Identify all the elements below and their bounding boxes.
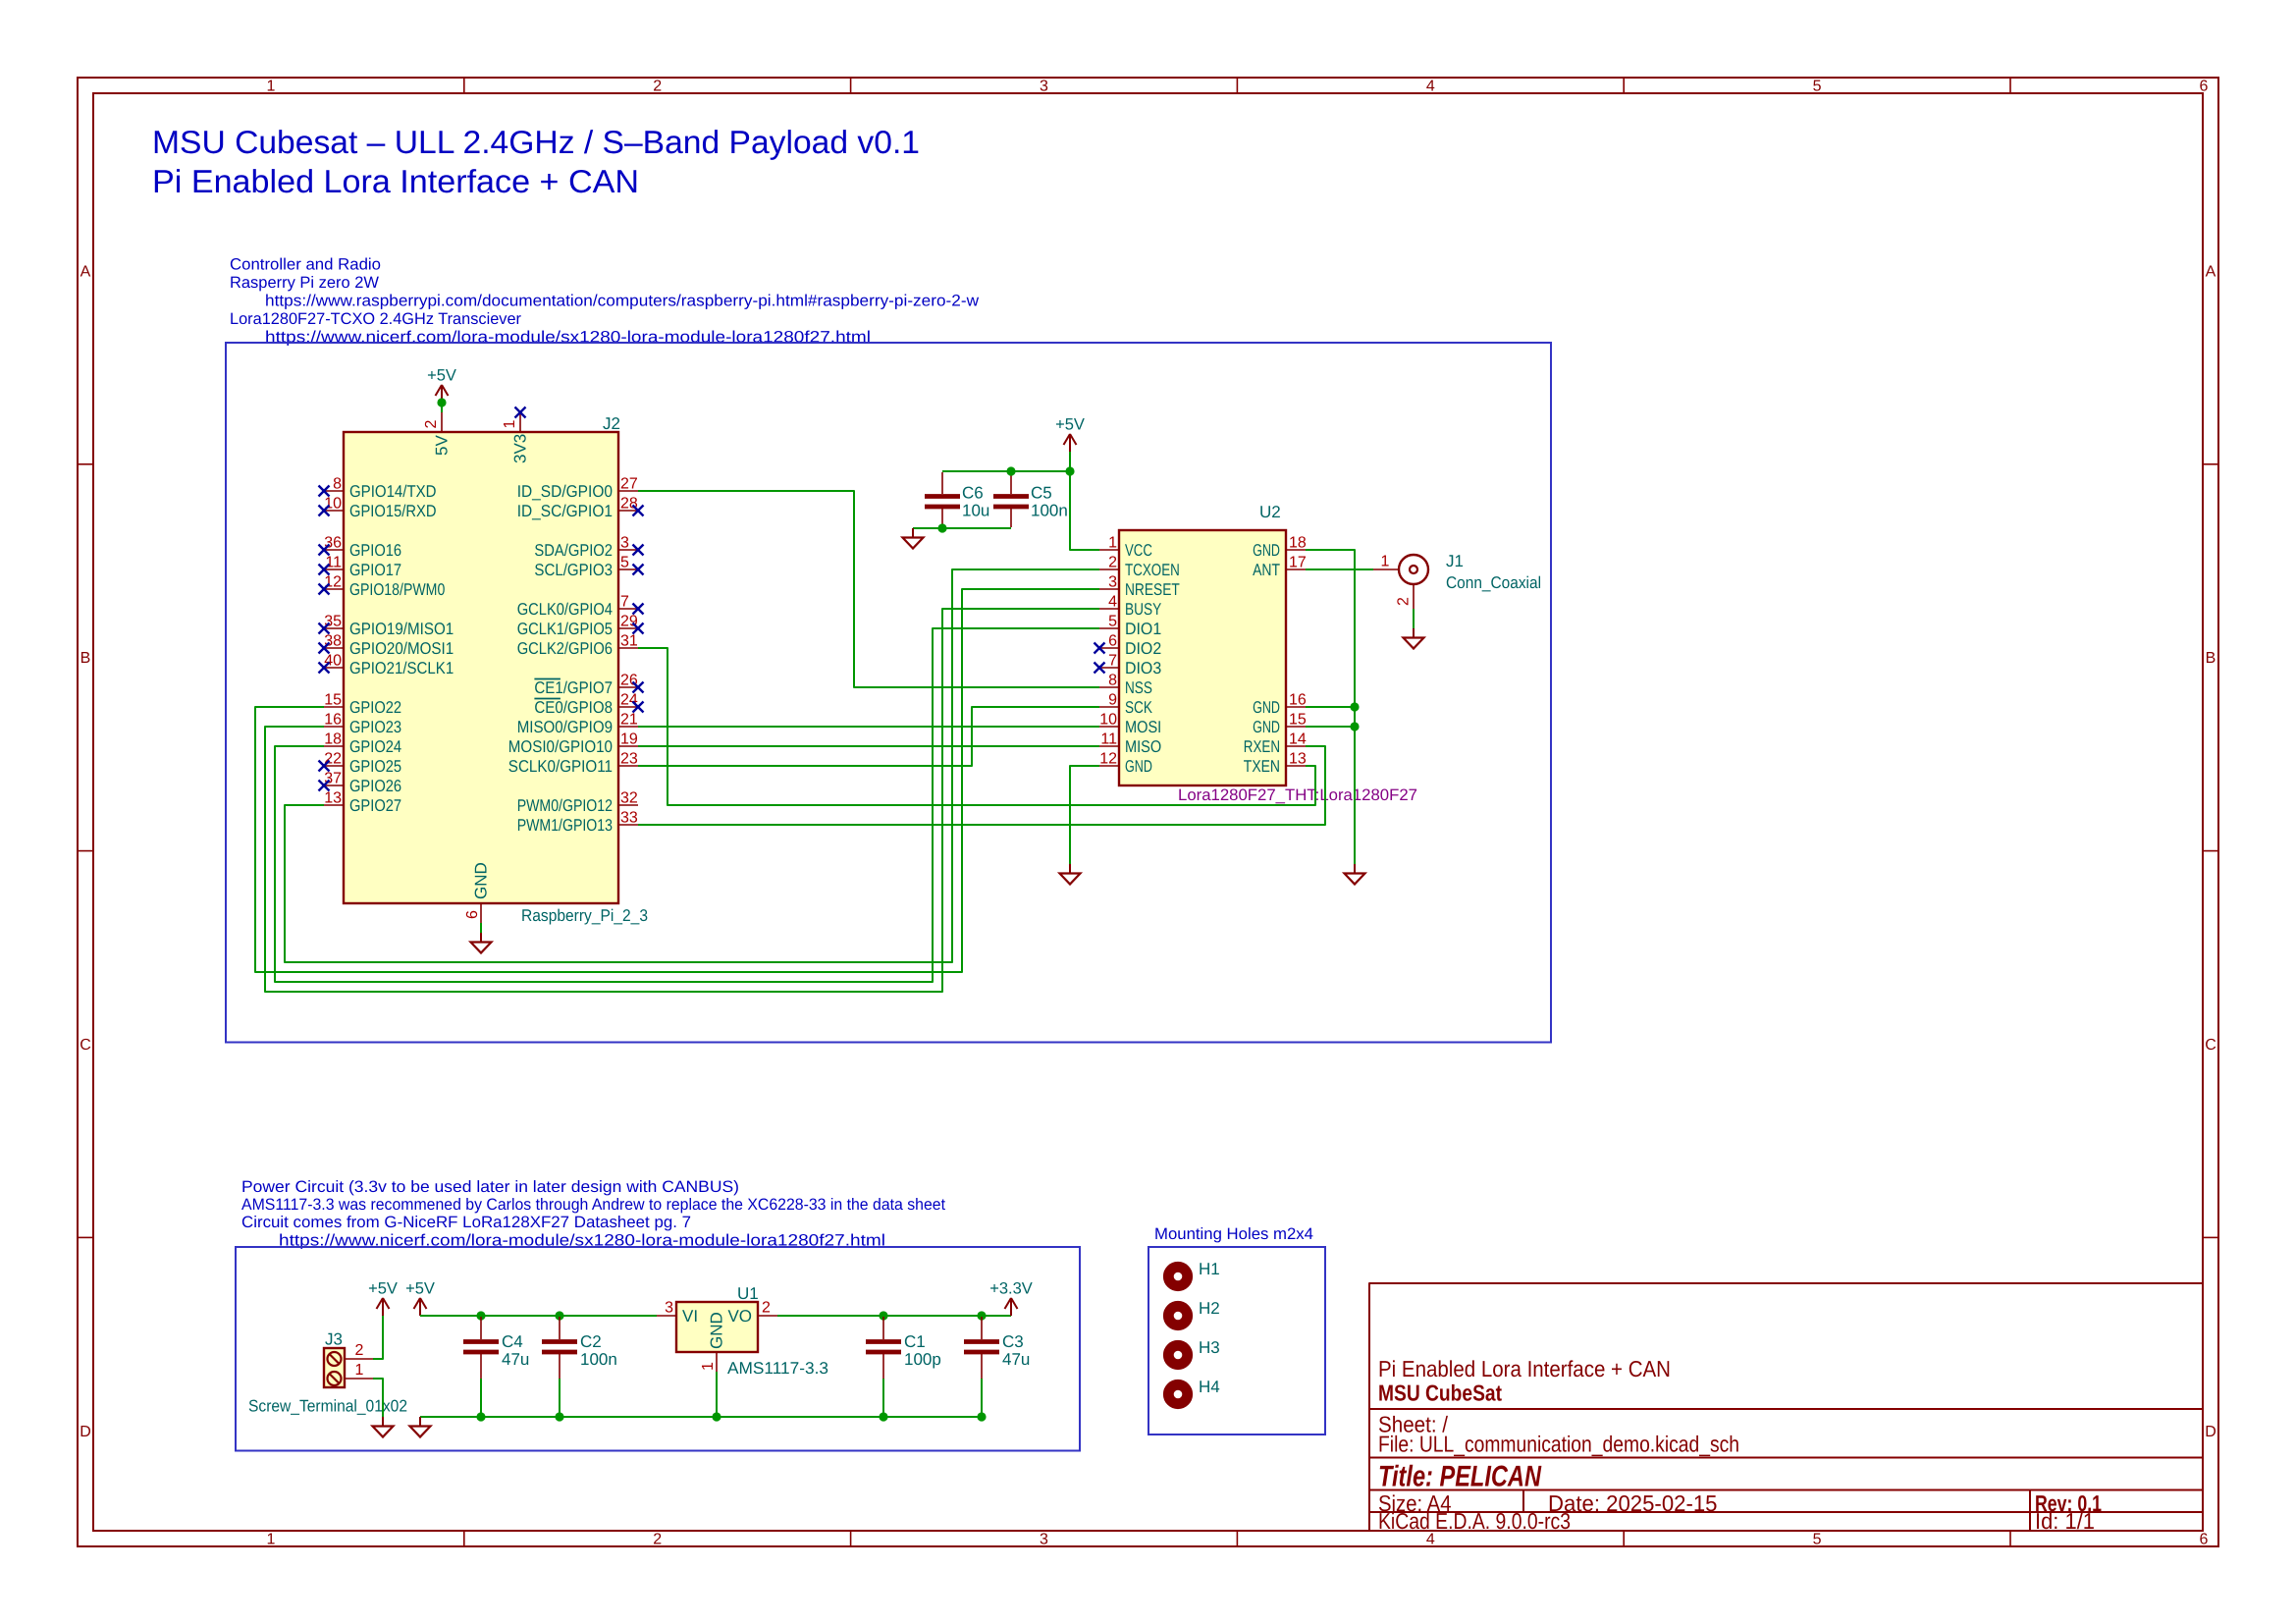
J2 pin 23 SCLK0/GPIO11 [508,751,638,776]
svg-text:KiCad E.D.A. 9.0.0-rc3: KiCad E.D.A. 9.0.0-rc3 [1378,1508,1571,1534]
note: controller and radio description [230,256,979,347]
junction C1 top [879,1311,887,1320]
wire U2 ANT to J1 [1306,568,1373,570]
svg-text:3: 3 [620,535,629,552]
svg-text:GCLK1/GPIO5: GCLK1/GPIO5 [517,620,613,638]
J2 pin 10 GPIO15/RXD [319,496,437,520]
svg-text:4: 4 [1426,1532,1435,1548]
svg-text:2: 2 [355,1342,364,1359]
svg-text:VCC: VCC [1125,541,1152,560]
svg-text:18: 18 [324,731,342,748]
svg-text:2: 2 [423,420,440,429]
svg-text:36: 36 [324,535,342,552]
J2 pin 3 SDA/GPIO2 [534,535,643,560]
svg-text:DIO1: DIO1 [1125,620,1161,638]
svg-text:Id: 1/1: Id: 1/1 [2035,1508,2095,1534]
svg-text:3: 3 [1040,79,1048,95]
svg-text:C6: C6 [962,484,984,503]
C1 labels [904,1332,941,1369]
svg-text:GPIO19/MISO1: GPIO19/MISO1 [349,620,454,638]
wire MISO0 to MOSI [638,726,1099,728]
svg-text:Pi Enabled Lora Interface + CA: Pi Enabled Lora Interface + CAN [1378,1356,1671,1381]
svg-text:+5V: +5V [405,1280,435,1298]
U1 pin 1 GND [700,1312,726,1372]
U1 reference label [737,1284,759,1303]
junction C1 bottom [879,1412,887,1421]
J2 pin 8 GPIO14/TXD [319,476,437,501]
svg-text:33: 33 [620,810,638,827]
U2 pin 1 VCC [1099,535,1152,560]
svg-text:5: 5 [1813,79,1822,95]
svg-text:Conn_Coaxial: Conn_Coaxial [1446,573,1541,592]
svg-text:B: B [2206,650,2216,667]
svg-text:Rasperry Pi zero 2W: Rasperry Pi zero 2W [230,274,379,292]
svg-text:GPIO24: GPIO24 [349,737,401,756]
svg-text:GPIO20/MOSI1: GPIO20/MOSI1 [349,639,454,658]
J2 pin 29 GCLK1/GPIO5 [517,614,644,638]
J2 pin 26 CE1/GPIO7 [534,673,643,697]
svg-text:B: B [80,650,91,667]
J2 pin 31 GCLK2/GPIO6 [517,633,638,658]
svg-text:DIO2: DIO2 [1125,639,1161,658]
power flag +5V above J2 [427,367,456,404]
svg-text:100n: 100n [580,1350,617,1369]
ground at J1 pin 2 [1404,609,1424,649]
svg-text:21: 21 [620,712,638,729]
J2 pin 15 GPIO22 [324,692,401,717]
power flag +3.3V [989,1280,1033,1317]
J2 pin 18 GPIO24 [324,731,401,756]
svg-text:10u: 10u [962,502,989,520]
svg-text:BUSY: BUSY [1125,600,1161,619]
J3 pin 1 [345,1362,373,1379]
U2 pin 2 TCXOEN [1099,555,1180,579]
junction at +5V J2 pin 2 [437,398,446,406]
J2 pin 5 SCL/GPIO3 [534,555,643,579]
wire PWM1 to RXEN [638,746,1325,825]
J2 pin 24 CE0/GPIO8 [534,692,643,717]
svg-text:GND: GND [472,862,491,899]
wire J3 pin2 to +5V [373,1316,383,1359]
svg-text:7: 7 [1108,653,1117,670]
J2 pin 27 ID_SD/GPIO0 [517,476,638,501]
junction U1 GND bottom [712,1412,721,1421]
U2 pin 4 BUSY [1099,594,1161,619]
capacitor C5 [993,472,1029,527]
junction C3 top [977,1311,986,1320]
junction C4 top [476,1311,485,1320]
svg-text:10: 10 [324,496,342,513]
svg-text:U2: U2 [1259,503,1281,521]
wire GPIO22 to NRESET [255,589,1099,972]
svg-text:C1: C1 [904,1332,926,1351]
capacitor C4 [463,1317,499,1417]
note: power circuit description [241,1178,945,1250]
svg-text:MSU Cubesat – ULL 2.4GHz / S–B: MSU Cubesat – ULL 2.4GHz / S–Band Payloa… [152,124,920,160]
svg-text:A: A [80,263,91,280]
svg-text:1: 1 [266,79,275,95]
J2 pin 21 MISO0/GPIO9 [517,712,638,736]
J2 pin 1 3V3 (top, no-connect) [502,407,530,464]
svg-text:8: 8 [1108,673,1117,689]
wire J3 pin1 to ground [373,1379,394,1437]
title block frame [1369,1283,2203,1531]
svg-text:6: 6 [2199,1532,2208,1548]
svg-text:PWM0/GPIO12: PWM0/GPIO12 [517,796,613,815]
U1 pin 3 VI [657,1300,698,1326]
junction C2 top [555,1311,563,1320]
svg-text:J3: J3 [325,1330,343,1349]
svg-text:ANT: ANT [1253,561,1280,579]
ground at caps [903,528,924,549]
svg-text:1: 1 [502,420,518,429]
U2 reference label [1259,503,1281,521]
svg-text:1: 1 [1108,535,1117,552]
svg-text:GPIO16: GPIO16 [349,541,401,560]
svg-text:Mounting Holes m2x4: Mounting Holes m2x4 [1154,1225,1313,1243]
svg-text:+5V: +5V [427,367,456,385]
mounting hole H4 [1168,1378,1219,1404]
svg-text:3: 3 [1108,574,1117,591]
J2 pin 35 GPIO19/MISO1 [319,614,454,638]
svg-text:VO: VO [727,1307,752,1326]
U2 pin 17 ANT [1253,555,1307,579]
svg-text:GND: GND [708,1312,726,1349]
svg-text:DIO3: DIO3 [1125,659,1161,677]
svg-text:10: 10 [1099,712,1117,729]
J2 value label Raspberry_Pi_2_3 [521,906,648,925]
svg-text:5V: 5V [433,435,452,456]
svg-text:C3: C3 [1002,1332,1024,1351]
svg-text:4: 4 [1108,594,1117,611]
U2 pin 3 NRESET [1099,574,1180,599]
svg-text:+3.3V: +3.3V [989,1280,1033,1298]
svg-text:+5V: +5V [1055,416,1085,434]
svg-text:3: 3 [1040,1532,1048,1548]
svg-text:J1: J1 [1446,552,1464,570]
svg-text:MISO: MISO [1125,737,1161,756]
U1 pin 2 VO [727,1300,777,1326]
svg-text:47u: 47u [502,1350,529,1369]
C5 labels [1031,484,1068,520]
svg-text:TXEN: TXEN [1244,757,1280,776]
J2 pin 2 5V (top) [423,412,452,456]
connector J1 Conn_Coaxial [1373,554,1428,610]
svg-text:27: 27 [620,476,638,493]
svg-text:C: C [2205,1037,2216,1054]
wire SCLK0 to SCK [638,707,1099,766]
U2 pin 8 NSS [1099,673,1152,697]
svg-text:SCL/GPIO3: SCL/GPIO3 [534,561,613,579]
ground at rail left end [410,1417,431,1437]
svg-text:CE0/GPIO8: CE0/GPIO8 [534,698,613,717]
power flag +5V above U2 [1055,416,1085,453]
J2 pin 32 PWM0/GPIO12 [517,790,638,815]
power circuit group box [236,1247,1080,1451]
svg-text:SDA/GPIO2: SDA/GPIO2 [534,541,613,560]
svg-text:GND: GND [1125,757,1152,776]
svg-text:1: 1 [700,1362,717,1371]
U2 pin 6 DIO2 [1095,633,1162,658]
svg-text:13: 13 [324,790,342,807]
svg-text:3V3: 3V3 [511,434,530,463]
U2 pin 13 TXEN [1244,751,1307,776]
svg-text:11: 11 [1100,731,1117,748]
svg-text:C2: C2 [580,1332,602,1351]
U1 value label AMS1117-3.3 [727,1359,828,1378]
svg-text:23: 23 [620,751,638,768]
J2 pin 40 GPIO21/SCLK1 [319,653,454,677]
mounting hole H3 [1168,1338,1219,1365]
svg-text:5: 5 [1813,1532,1822,1548]
regulator U1 AMS1117-3.3 body [676,1302,758,1352]
svg-text:GND: GND [1253,541,1280,560]
svg-text:GPIO22: GPIO22 [349,698,401,717]
svg-text:Title: PELICAN: Title: PELICAN [1378,1461,1542,1493]
svg-text:Pi Enabled Lora Interface + CA: Pi Enabled Lora Interface + CAN [152,163,639,199]
J2 pin 38 GPIO20/MOSI1 [319,633,454,658]
svg-text:NSS: NSS [1125,678,1152,697]
svg-text:CE1/GPIO7: CE1/GPIO7 [534,678,613,697]
svg-text:Power Circuit (3.3v to be used: Power Circuit (3.3v to be used later in … [241,1178,739,1196]
controller and radio group box [226,343,1551,1043]
U2 pin 12 GND [1099,751,1152,776]
svg-text:ID_SD/GPIO0: ID_SD/GPIO0 [517,482,613,501]
svg-text:GPIO25: GPIO25 [349,757,401,776]
junction C4 bottom [476,1412,485,1421]
svg-text:GPIO14/TXD: GPIO14/TXD [349,482,437,501]
U2 pin 10 MOSI [1099,712,1161,736]
svg-text:PWM1/GPIO13: PWM1/GPIO13 [517,816,613,835]
svg-text:26: 26 [620,673,638,689]
U2 footprint label Lora1280F27_THT:Lora1280F27 [1178,786,1417,804]
svg-text:Lora1280F27_THT:Lora1280F27: Lora1280F27_THT:Lora1280F27 [1178,786,1417,804]
mounting hole H2 [1168,1299,1219,1326]
svg-text:MOSI: MOSI [1125,718,1161,736]
wire +5V to J2 pin 2 [441,403,443,412]
C4 labels [502,1332,529,1369]
U2 pin 14 RXEN [1244,731,1307,756]
wire GPIO0 to NSS [638,491,1099,687]
svg-text:Lora1280F27-TCXO 2.4GHz Transc: Lora1280F27-TCXO 2.4GHz Transciever [230,310,521,328]
junction C6 bottom [937,523,946,532]
svg-text:GPIO26: GPIO26 [349,777,401,795]
svg-text:GPIO15/RXD: GPIO15/RXD [349,502,437,520]
wire +5V rail to caps [942,470,1070,472]
svg-text:6: 6 [1108,633,1117,650]
svg-text:AMS1117-3.3 was recommened by: AMS1117-3.3 was recommened by Carlos thr… [241,1196,945,1214]
capacitor C1 [866,1317,901,1417]
C6 labels [962,484,989,520]
svg-text:11: 11 [325,555,342,571]
svg-text:100n: 100n [1031,502,1068,520]
U2 pin 15 GND [1253,712,1307,736]
mounting hole H1 [1168,1260,1219,1286]
svg-text:2: 2 [653,79,662,95]
connector J3 Screw_Terminal body [324,1348,345,1387]
svg-text:8: 8 [333,476,342,493]
junction C2 bottom [555,1412,563,1421]
svg-text:24: 24 [620,692,638,709]
J2 pin 11 GPIO17 [319,555,402,579]
svg-text:2: 2 [1396,597,1413,606]
svg-text:19: 19 [620,731,638,748]
svg-text:17: 17 [1289,555,1307,571]
J2 pin 6 GND (bottom) [464,862,491,923]
J2 pin 19 MOSI0/GPIO10 [508,731,638,756]
note: mounting holes label [1154,1225,1313,1243]
svg-text:16: 16 [1289,692,1307,709]
svg-text:22: 22 [324,751,342,768]
J1 labels [1446,552,1541,592]
svg-text:40: 40 [324,653,342,670]
J2 pin 28 ID_SC/GPIO1 [517,496,644,520]
svg-text:Controller and Radio: Controller and Radio [230,256,381,274]
svg-text:Circuit comes from G-NiceRF Lo: Circuit comes from G-NiceRF LoRa128XF27 … [241,1214,691,1231]
ground at J2 pin 6 [471,923,492,953]
C3 labels [1002,1332,1030,1369]
wire GPIO24 to DIO1 [275,628,1099,982]
svg-text:GPIO27: GPIO27 [349,796,401,815]
svg-text:15: 15 [1289,712,1307,729]
svg-text:15: 15 [324,692,342,709]
svg-text:2: 2 [653,1532,662,1548]
wire GPIO6 to TXEN [638,648,1315,805]
junction GND15 [1350,722,1359,731]
svg-text:31: 31 [620,633,638,650]
junction GND16 [1350,702,1359,711]
J3 value label Screw_Terminal_01x02 [248,1397,407,1416]
svg-text:MOSI0/GPIO10: MOSI0/GPIO10 [508,737,613,756]
svg-text:GCLK2/GPIO6: GCLK2/GPIO6 [517,639,613,658]
svg-text:C5: C5 [1031,484,1052,503]
svg-text:SCLK0/GPIO11: SCLK0/GPIO11 [508,757,613,776]
svg-text:6: 6 [464,910,481,919]
svg-text:38: 38 [324,633,342,650]
wire +5V to U2 VCC [1070,452,1099,550]
svg-text:H1: H1 [1199,1260,1220,1278]
svg-text:SCK: SCK [1125,698,1152,717]
svg-text:C4: C4 [502,1332,523,1351]
svg-text:https://www.raspberrypi.com/do: https://www.raspberrypi.com/documentatio… [265,293,979,310]
svg-text:A: A [2206,263,2216,280]
J2 pin 16 GPIO23 [324,712,401,736]
svg-text:12: 12 [1099,751,1117,768]
svg-text:RXEN: RXEN [1244,737,1280,756]
J3 pin 2 [345,1342,373,1359]
power flag +5V at J3 [368,1280,398,1317]
svg-text:GND: GND [1253,718,1280,736]
wire U1 GND to bottom rail [716,1372,718,1417]
svg-text:D: D [80,1424,91,1440]
svg-text:35: 35 [324,614,342,630]
capacitor C6 [925,472,960,527]
junction +5V vertical [1065,466,1074,475]
svg-text:4: 4 [1426,79,1435,95]
junction C5 top [1006,466,1015,475]
svg-text:MISO0/GPIO9: MISO0/GPIO9 [517,718,613,736]
title block text [1378,1356,2102,1534]
svg-text:16: 16 [324,712,342,729]
J2 pin 33 PWM1/GPIO13 [517,810,638,835]
wire U2 GND12 to ground [1070,766,1099,864]
J2 pin 22 GPIO25 [319,751,402,776]
wire +5V input rail [420,1315,657,1317]
svg-text:5: 5 [1108,614,1117,630]
ground at U2 right [1345,864,1365,885]
U2 pin 9 SCK [1099,692,1152,717]
svg-text:File: ULL_communication_demo.k: File: ULL_communication_demo.kicad_sch [1378,1431,1739,1456]
svg-text:47u: 47u [1002,1350,1030,1369]
svg-text:Raspberry_Pi_2_3: Raspberry_Pi_2_3 [521,906,648,925]
svg-text:29: 29 [620,614,638,630]
svg-text:3: 3 [665,1300,673,1317]
J2 pin 7 GCLK0/GPIO4 [517,594,644,619]
IC U2 Lora1280F27 body [1119,530,1286,785]
svg-text:VI: VI [682,1307,698,1326]
wire ground rail [420,1416,982,1418]
svg-text:13: 13 [1289,751,1307,768]
svg-text:32: 32 [620,790,638,807]
wire GPIO23 to BUSY [265,609,1099,992]
svg-text:C: C [80,1037,91,1054]
svg-text:AMS1117-3.3: AMS1117-3.3 [727,1359,828,1378]
svg-text:ID_SC/GPIO1: ID_SC/GPIO1 [517,502,613,520]
J2 pin 12 GPIO18/PWM0 [319,574,446,599]
svg-text:H4: H4 [1199,1378,1220,1396]
J2 pin 37 GPIO26 [319,771,402,795]
svg-text:6: 6 [2199,79,2208,95]
wire GPIO27 to TCXOEN [285,569,1099,962]
svg-text:28: 28 [620,496,638,513]
U2 pin 16 GND [1253,692,1307,717]
svg-text:D: D [2205,1424,2216,1440]
svg-text:14: 14 [1289,731,1307,748]
svg-text:12: 12 [324,574,342,591]
C2 labels [580,1332,617,1369]
svg-text:100p: 100p [904,1350,941,1369]
svg-text:37: 37 [324,771,342,787]
wire caps bottom rail [913,527,1011,529]
power flag +5V at rail [405,1280,435,1317]
connector J2 Raspberry_Pi_2_3 body [344,432,618,903]
svg-text:2: 2 [762,1300,771,1317]
ground at U2 GND12 [1060,864,1081,885]
svg-text:TCXOEN: TCXOEN [1125,561,1180,579]
junction C3 bottom [977,1412,986,1421]
J3 reference label [325,1330,343,1349]
svg-text:2: 2 [1108,555,1117,571]
svg-text:H2: H2 [1199,1299,1220,1318]
svg-text:GPIO17: GPIO17 [349,561,401,579]
svg-text:7: 7 [620,594,629,611]
svg-text:1: 1 [355,1362,364,1379]
svg-text:5: 5 [620,555,629,571]
capacitor C2 [542,1317,577,1417]
svg-text:GPIO23: GPIO23 [349,718,401,736]
sheet title text [152,124,920,199]
wire U2 GND pins to ground [1306,550,1355,864]
capacitor C3 [964,1317,999,1417]
svg-text:J2: J2 [603,414,620,433]
svg-text:Date: 2025-02-15: Date: 2025-02-15 [1548,1490,1718,1516]
U2 pin 18 GND [1253,535,1307,560]
svg-text:1: 1 [1381,554,1390,570]
svg-text:9: 9 [1108,692,1117,709]
U2 pin 11 MISO [1099,731,1161,756]
svg-text:18: 18 [1289,535,1307,552]
wire +3.3V output rail [777,1315,1011,1317]
